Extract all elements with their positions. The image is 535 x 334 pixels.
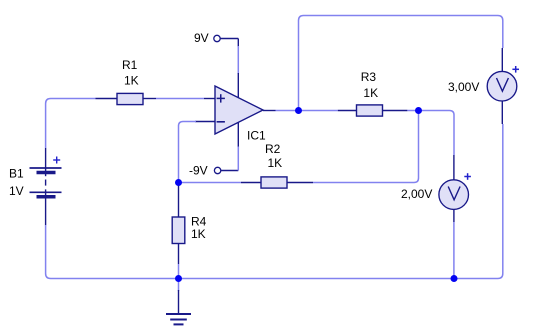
svg-text:1V: 1V — [9, 184, 24, 198]
voltmeter V1 (3,00V) — [487, 48, 519, 124]
node GND junction — [175, 275, 182, 282]
wire: node A to R2 — [179, 182, 242, 184]
svg-text:B1: B1 — [9, 167, 24, 181]
svg-text:1K: 1K — [191, 227, 206, 241]
voltmeter V2 (2,00V) — [439, 155, 471, 222]
resistor R4 — [172, 184, 185, 264]
+9V supply terminal — [214, 35, 239, 47]
wire: op-amp output to node OUT — [276, 110, 299, 112]
node B junction — [415, 107, 422, 114]
svg-text:-9V: -9V — [189, 164, 208, 178]
svg-text:R1: R1 — [122, 58, 138, 72]
wire: voltmeter V2 down to node C — [453, 222, 455, 279]
wire: R4 to node GND — [178, 264, 180, 279]
wire: voltmeter V1 down and left along bottom rail to node C — [454, 124, 503, 279]
wire: battery + terminal up and right to R1 — [46, 99, 96, 149]
-9V supply terminal — [214, 167, 238, 173]
svg-text:9V: 9V — [194, 31, 209, 45]
wire: node OUT up along top rail and down to voltmeter V1 — [299, 16, 503, 109]
resistor R3 — [338, 105, 408, 116]
op-amp IC1 — [195, 73, 276, 147]
svg-text:R3: R3 — [361, 70, 377, 84]
svg-text:3,00V: 3,00V — [448, 80, 479, 94]
node OUT junction — [295, 107, 302, 114]
wire: R3 to node B — [407, 110, 418, 112]
wire: node GND to ground symbol — [178, 279, 180, 292]
wire: battery - terminal down to bottom rail — [46, 225, 179, 279]
svg-text:IC1: IC1 — [247, 129, 266, 143]
svg-text:1K: 1K — [363, 86, 378, 100]
resistor R2 — [241, 177, 313, 188]
resistor R1 — [96, 93, 157, 104]
node C junction — [451, 275, 458, 282]
wire: node OUT to R3 — [299, 110, 338, 112]
wire: -9V terminal to op-amp negative supply pin — [237, 146, 239, 171]
wire: R1 to op-amp non-inverting input — [156, 98, 204, 100]
ground — [166, 290, 191, 324]
node A junction — [175, 179, 182, 186]
battery B1 — [30, 148, 62, 225]
wire: node B to voltmeter V2 — [419, 111, 455, 156]
svg-text:2,00V: 2,00V — [401, 187, 432, 201]
wire: op-amp inverting input left and down to node A — [179, 122, 197, 181]
wire: bottom rail from node GND to node C — [179, 278, 455, 280]
wire: 9V terminal to op-amp positive supply pin — [237, 46, 239, 74]
wire: node A down to R4 — [178, 183, 180, 187]
svg-text:1K: 1K — [268, 156, 283, 170]
wire: R2 right and up to node B — [313, 113, 419, 183]
svg-text:1K: 1K — [124, 74, 139, 88]
svg-text:R2: R2 — [265, 142, 281, 156]
